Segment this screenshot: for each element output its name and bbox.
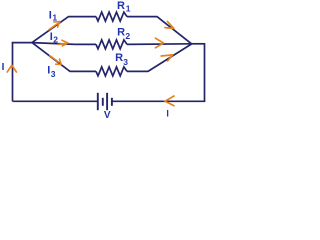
wire: branch 1 right lead + diagonal to node B [127,17,192,44]
svg-text:I: I [49,9,52,21]
svg-text:1: 1 [52,13,57,23]
battery V (two cells) [98,93,112,110]
current arrow I1 (up-right on branch 1 diagonal) [49,22,60,30]
label I3 [47,64,55,78]
wire: left feed to node A [12,42,32,44]
svg-text:2: 2 [53,34,58,44]
label I (left bus current) [2,62,5,73]
current arrow I2 (right on branch 2) [58,40,68,46]
svg-text:2: 2 [125,31,130,41]
current arrow on branch 1 right diagonal (down-right) [165,21,174,28]
resistor R2 [96,40,127,49]
wire: branch 2 left lead to R2 [32,43,96,45]
svg-text:3: 3 [123,57,128,67]
label I2 [50,31,59,45]
wire: left vertical bus [12,43,14,102]
label R3 [115,52,128,67]
label R2 [117,26,130,40]
wire: branch 3 left diagonal + lead to R3 [32,43,96,72]
svg-text:R: R [115,52,123,64]
wire: bottom left (battery negative lead) [13,100,98,102]
svg-text:V: V [104,110,111,119]
resistor R1 [96,12,127,21]
label I (return current, bottom) [166,108,169,118]
wire: node B to right vertical bus [192,43,205,45]
current arrow I3 (down-right on branch 3 diagonal) [50,56,61,65]
label I1 [49,9,58,22]
current arrow I (left bus, up) [7,65,16,72]
wire: bottom right (battery positive lead) [113,100,206,102]
wire: branch 2 right lead to node B [127,43,192,46]
svg-text:I: I [2,62,5,73]
wire: branch 1 left diagonal + lead to R1 [32,17,96,43]
label R1 [117,0,131,13]
resistor R3 [96,67,127,76]
current arrow on branch 3 right diagonal (up-right) [161,55,172,61]
svg-text:R: R [117,0,125,12]
label V (battery) [104,110,111,121]
wire: branch 3 right lead + diagonal to node B [127,44,192,71]
svg-text:R: R [117,26,125,38]
svg-text:3: 3 [51,69,56,79]
svg-text:I: I [166,108,169,118]
wire: right vertical bus [204,43,206,101]
current arrow I return (bottom wire, left) [165,96,174,106]
svg-text:1: 1 [126,3,131,13]
current arrow on branch 2 right (right) [155,38,163,48]
